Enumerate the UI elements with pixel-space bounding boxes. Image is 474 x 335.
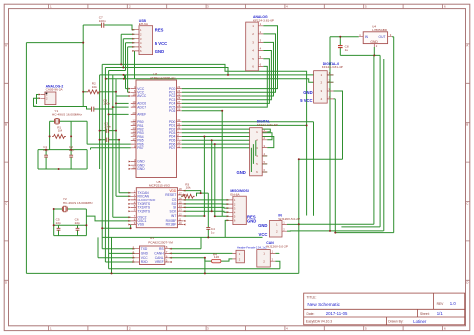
svg-text:100n: 100n bbox=[104, 124, 111, 128]
resistor R3 bbox=[182, 182, 195, 198]
svg-text:21: 21 bbox=[133, 165, 136, 169]
junction (83.2,91.8) bbox=[82, 91, 84, 93]
svg-text:10k: 10k bbox=[92, 85, 97, 89]
wire CAN pin1 bbox=[275, 252, 279, 254]
svg-text:TXD: TXD bbox=[141, 247, 148, 251]
wire Y2 bottom rail bbox=[54, 235, 87, 237]
svg-text:Drawn By:: Drawn By: bbox=[388, 320, 403, 324]
svg-text:14: 14 bbox=[179, 204, 182, 208]
wire C7 to USB pin1 bbox=[104, 25, 134, 30]
svg-text:10k: 10k bbox=[186, 186, 191, 190]
wire ADC6 tap bbox=[116, 102, 129, 104]
wire mystery row y226.9 bbox=[341, 226, 380, 228]
svg-text:Sheet:: Sheet: bbox=[420, 312, 430, 316]
svg-text:22: 22 bbox=[133, 104, 136, 108]
wire PD4 to DIGITAL pin3 bbox=[182, 137, 274, 148]
svg-text:25: 25 bbox=[177, 93, 180, 97]
junction (86.4,225.2) bbox=[85, 224, 87, 226]
svg-text:29: 29 bbox=[177, 107, 180, 111]
wire PCA RS bbox=[170, 237, 202, 248]
wire GND rail y55.4 bbox=[340, 54, 380, 56]
IC U3 ATMEGA328P-AU bbox=[129, 72, 182, 177]
svg-text:KF124-3.81-4P: KF124-3.81-4P bbox=[322, 65, 343, 69]
svg-text:A: A bbox=[5, 44, 7, 48]
connector MISO/MOSI EH-6A bbox=[227, 189, 249, 224]
wire R2 left bbox=[83, 91, 86, 93]
wire big bottom rail y273.4 bbox=[26, 272, 298, 274]
wire MCP VSS to rail bbox=[102, 225, 130, 229]
wire MCP INT up bbox=[183, 137, 204, 217]
wire U4 IN net down x330 bbox=[329, 37, 331, 231]
wire DIGITAL-0 pin4 5V down bbox=[334, 99, 336, 233]
wire Y2 to OSC1 bbox=[86, 216, 130, 221]
svg-text:100n: 100n bbox=[99, 19, 106, 23]
svg-text:13: 13 bbox=[179, 208, 182, 212]
svg-text:16: 16 bbox=[179, 196, 182, 200]
svg-text:23: 23 bbox=[177, 85, 180, 89]
wire PB6 from crystal bbox=[87, 143, 131, 145]
wire bus x102.2 bbox=[102, 64, 135, 248]
junction (228,74.9) bbox=[227, 74, 229, 76]
IC U1 PCA82C250T-YM bbox=[133, 236, 174, 264]
svg-text:PCA82C250T-YM: PCA82C250T-YM bbox=[148, 240, 173, 244]
capacitor C9 bbox=[92, 99, 111, 112]
svg-text:PD7: PD7 bbox=[169, 146, 176, 150]
svg-text:5 VCC: 5 VCC bbox=[155, 41, 167, 46]
junction (116,130.6) bbox=[115, 130, 117, 132]
svg-text:VCC: VCC bbox=[259, 232, 268, 237]
junction (123.9,78.7) bbox=[123, 78, 125, 80]
svg-text:EH-6A: EH-6A bbox=[230, 192, 240, 196]
junction (112.8,107.1) bbox=[112, 106, 114, 108]
svg-text:100n: 100n bbox=[103, 102, 110, 106]
svg-text:16: 16 bbox=[133, 133, 136, 137]
wire C9 right bbox=[94, 108, 113, 110]
svg-text:22p: 22p bbox=[75, 221, 80, 225]
svg-text:17: 17 bbox=[179, 191, 182, 195]
resistor R2 bbox=[87, 82, 101, 94]
svg-text:10: 10 bbox=[177, 141, 180, 145]
wire AREF tap bbox=[109, 113, 129, 115]
svg-text:SCK: SCK bbox=[170, 209, 178, 213]
wire big left loop vertical x26.4 bbox=[25, 43, 27, 274]
wire R3 right up bbox=[197, 193, 209, 227]
svg-text:27: 27 bbox=[177, 100, 180, 104]
wire MCP SO to MISO pin2 bbox=[183, 203, 229, 205]
resistor R4 bbox=[212, 252, 221, 262]
wire C3 row bbox=[100, 130, 116, 132]
IC U5 MCP2515-I/SO bbox=[128, 180, 185, 228]
wire v x99.6 bbox=[99, 75, 101, 169]
svg-text:15: 15 bbox=[179, 200, 182, 204]
wire right loop vertical x298.8 bbox=[298, 159, 300, 273]
svg-text:10: 10 bbox=[179, 221, 182, 225]
svg-text:Date:: Date: bbox=[307, 312, 315, 316]
capacitor C4 bbox=[206, 227, 215, 234]
svg-text:1/1: 1/1 bbox=[437, 311, 444, 316]
wire ADC7 tap bbox=[113, 106, 129, 108]
wire C8 stems bbox=[339, 37, 341, 56]
svg-text:GND: GND bbox=[155, 49, 164, 54]
capacitor C3 bbox=[104, 121, 111, 132]
svg-text:18: 18 bbox=[179, 187, 182, 191]
svg-text:Lotiner: Lotiner bbox=[413, 319, 427, 324]
junction (374.3,55.4) bbox=[373, 54, 375, 56]
svg-text:18: 18 bbox=[133, 93, 136, 97]
junction (211.7,211.2) bbox=[211, 210, 213, 212]
junction (214.8,216.3) bbox=[214, 215, 216, 217]
svg-text:RS: RS bbox=[159, 247, 164, 251]
svg-text:TX2RTS: TX2RTS bbox=[138, 209, 151, 213]
junction (204.4,216) bbox=[203, 215, 205, 217]
crystal Y2 bbox=[62, 197, 93, 212]
wire CANL down bbox=[204, 258, 206, 274]
capacitor C5 bbox=[56, 218, 61, 231]
wire PC2 to ANALOG pin3 bbox=[182, 42, 274, 96]
capacitor C6 bbox=[75, 218, 80, 231]
junction (102.2,228.3) bbox=[101, 227, 103, 229]
wire C2 stems bbox=[70, 150, 72, 169]
wire bus x112.8 bbox=[113, 75, 131, 217]
wire Y2 right bbox=[68, 209, 87, 236]
junction (71.1,149.6) bbox=[70, 149, 72, 151]
wire MISO pin6 GND bbox=[225, 220, 229, 237]
wire USB pin6 down bbox=[134, 51, 136, 79]
wire U4 OUT down x393.7 bbox=[392, 37, 394, 233]
wire GND row y78.7 to DIGITAL-0 pin2 bbox=[106, 79, 334, 83]
svg-text:26: 26 bbox=[177, 96, 180, 100]
wire PCA CANH to header bbox=[170, 252, 233, 254]
svg-text:GND: GND bbox=[237, 170, 246, 175]
wire USB pin4 down bbox=[109, 43, 135, 71]
wire IN pin1 GND row y224.2 bbox=[287, 223, 374, 225]
junction (298.8,224.3) bbox=[298, 223, 300, 225]
svg-text:RXD: RXD bbox=[141, 260, 149, 264]
svg-text:RES: RES bbox=[155, 27, 164, 32]
svg-text:1u: 1u bbox=[345, 48, 349, 52]
capacitor C1 bbox=[43, 145, 48, 157]
wire PCA VCC left bbox=[98, 237, 135, 257]
wire bundle x380.1 bbox=[379, 55, 381, 227]
svg-text:1.0: 1.0 bbox=[450, 301, 457, 306]
crystal Y1 bbox=[52, 109, 82, 124]
junction (204.9,273.4) bbox=[204, 272, 206, 274]
wire bus x116 bbox=[116, 79, 131, 196]
wire C1C2 top rail y149.6 bbox=[38, 149, 87, 151]
wire PC3 to ANALOG pin4 bbox=[182, 51, 272, 100]
wire R3 left to RESET bbox=[181, 195, 183, 196]
svg-text:AREF: AREF bbox=[137, 113, 146, 117]
wire PC5 to ANALOG pin6 bbox=[182, 66, 268, 107]
svg-text:A: A bbox=[466, 44, 468, 48]
junction (105.8,78.7) bbox=[105, 78, 107, 80]
wire bus x105.4 bbox=[105, 68, 134, 263]
svg-text:CANH: CANH bbox=[154, 252, 164, 256]
svg-text:Header-Female-2.54_1x2: Header-Female-2.54_1x2 bbox=[237, 246, 267, 250]
wire PC0 to ANALOG pin1 bbox=[182, 26, 278, 89]
svg-text:VSS: VSS bbox=[138, 223, 145, 227]
wire Y1 left bbox=[50, 121, 55, 149]
junction (46.1,149.6) bbox=[45, 149, 47, 151]
svg-text:KF124-3.81-6P: KF124-3.81-6P bbox=[257, 123, 278, 127]
svg-text:INT: INT bbox=[171, 214, 176, 218]
wire C5 stems bbox=[58, 225, 60, 235]
wire MCP SI to MISO pin3 bbox=[183, 206, 229, 209]
wire C9 left bbox=[34, 95, 92, 110]
wire row y64.4 to v306.6 bbox=[102, 64, 306, 215]
svg-text:CA05-96-2A: CA05-96-2A bbox=[46, 88, 64, 92]
junction (222.2,110.8) bbox=[221, 110, 223, 112]
wire rail y268.7 bbox=[109, 268, 280, 270]
svg-text:GND: GND bbox=[247, 219, 256, 224]
junction (116,103.4) bbox=[115, 102, 117, 104]
wire U4 IN left bbox=[330, 36, 359, 38]
junction (123.5,74.9) bbox=[123, 74, 125, 76]
svg-text:GND: GND bbox=[370, 40, 378, 44]
svg-text:B: B bbox=[5, 123, 7, 127]
junction (116,91.8) bbox=[115, 91, 117, 93]
wire Y2 left bbox=[54, 209, 63, 236]
svg-text:HC-49US 16.000MHz: HC-49US 16.000MHz bbox=[63, 201, 93, 205]
svg-text:GND: GND bbox=[258, 223, 267, 228]
junction (53.7,209) bbox=[53, 208, 55, 210]
wire bus x108.6 bbox=[108, 71, 110, 269]
connector IN WJ126V-5.0-2P bbox=[269, 214, 300, 237]
svg-text:OUT: OUT bbox=[379, 35, 386, 39]
junction (306.6,125.4) bbox=[306, 124, 308, 126]
svg-text:19: 19 bbox=[133, 100, 136, 104]
junction (119.1,139.8) bbox=[118, 139, 120, 141]
wire link 5V-GND rows bbox=[124, 75, 126, 79]
wire PB7 tap bbox=[91, 148, 131, 150]
junction (83.2,42.6) bbox=[82, 42, 84, 44]
wire C1 stems bbox=[45, 150, 47, 169]
connector ANALOG-2 CA05-96-2A bbox=[39, 84, 64, 104]
junction (99.6,139.8) bbox=[99, 139, 101, 141]
svg-text:VREF: VREF bbox=[155, 260, 164, 264]
wire PCA CANL to R4 bbox=[170, 258, 212, 261]
wire PD2 to DIGITAL pin1 bbox=[182, 129, 271, 132]
junction (200.7,193.1) bbox=[200, 192, 202, 194]
wire U4 GND stub bbox=[373, 47, 375, 55]
svg-text:11: 11 bbox=[177, 144, 180, 148]
svg-text:17: 17 bbox=[133, 137, 136, 141]
wire MCP SCK to MISO pin4 bbox=[183, 211, 229, 212]
svg-text:ATMEGA328P-AU: ATMEGA328P-AU bbox=[150, 76, 175, 80]
junction (58.6,169) bbox=[58, 168, 60, 170]
wire PC6 RES net bbox=[182, 111, 229, 217]
svg-text:120: 120 bbox=[214, 255, 219, 259]
svg-text:L7805ABD: L7805ABD bbox=[372, 28, 388, 32]
svg-text:15: 15 bbox=[133, 130, 136, 134]
svg-text:1M: 1M bbox=[58, 129, 63, 133]
svg-text:New Schematic: New Schematic bbox=[307, 302, 340, 307]
svg-text:20: 20 bbox=[133, 111, 136, 115]
svg-text:GND: GND bbox=[137, 167, 145, 171]
wire bottom rail y169 bbox=[38, 150, 87, 169]
junction (204.9,257.8) bbox=[204, 257, 206, 259]
wire GND bundle x373.9 bbox=[373, 55, 375, 224]
wire top GND horizontal y42.6 bbox=[26, 42, 83, 44]
wire PC1 to ANALOG pin2 bbox=[182, 34, 276, 92]
capacitor C8 bbox=[338, 44, 349, 51]
svg-text:TITLE:: TITLE: bbox=[307, 295, 317, 299]
svg-text:11: 11 bbox=[179, 217, 182, 221]
wire bus x119.1 bbox=[119, 140, 131, 193]
connector DIGITAL KF124-3.81-6P bbox=[250, 120, 278, 176]
junction (204.4,136.5) bbox=[203, 136, 205, 138]
svg-text:RX1BF: RX1BF bbox=[166, 223, 177, 227]
capacitor C2 bbox=[69, 145, 74, 157]
svg-text:REV: REV bbox=[437, 302, 445, 306]
resistor R1 bbox=[52, 125, 66, 138]
junction (208.3,237.4) bbox=[207, 236, 209, 238]
wire DIGITAL-0 pin3 to GND loop bbox=[299, 91, 343, 159]
wire PD5 to DIGITAL pin4 bbox=[182, 140, 267, 156]
junction (335.3,232.6) bbox=[334, 232, 336, 234]
svg-text:22p: 22p bbox=[56, 221, 61, 225]
svg-text:14: 14 bbox=[133, 126, 136, 130]
svg-text:28: 28 bbox=[177, 104, 180, 108]
wire PD0 right bbox=[182, 122, 314, 216]
wire PD5 to SCK vertical bbox=[211, 140, 213, 211]
wire Y1 right bbox=[60, 121, 72, 149]
wire vertical left bus x83 bbox=[82, 25, 84, 107]
wire Y1 to PB6 bbox=[71, 121, 87, 144]
svg-text:12: 12 bbox=[179, 213, 182, 217]
svg-text:MCP2515-I/SO: MCP2515-I/SO bbox=[149, 184, 171, 188]
svg-text:AVCC: AVCC bbox=[137, 94, 147, 98]
wire PD3 to DIGITAL pin2 bbox=[182, 133, 272, 140]
wire C7 left to loop bbox=[83, 24, 101, 26]
wire R2 right to bus bbox=[100, 91, 116, 93]
wire R4 to header pin2 bbox=[221, 259, 233, 261]
svg-text:30: 30 bbox=[177, 118, 180, 122]
junction (49.6,136.4) bbox=[49, 135, 51, 137]
wire MCP CS to MISO pin1 bbox=[183, 199, 229, 201]
wire PCA GND left bbox=[109, 252, 135, 254]
wire USB pin2 down bbox=[121, 34, 134, 64]
wire PC4 to ANALOG pin5 bbox=[182, 59, 270, 104]
wire 5V row y74.1 to DIGITAL-0 pin1 bbox=[100, 74, 334, 76]
svg-text:32: 32 bbox=[177, 126, 180, 130]
svg-text:WJ126V-5.0-2P: WJ126V-5.0-2P bbox=[266, 244, 288, 248]
wire PD6 to DIGITAL pin5 bbox=[182, 144, 267, 164]
wire IN pin2 VCC row y230.9 bbox=[287, 230, 384, 232]
junction (123.3,67.5) bbox=[122, 67, 124, 69]
wire v x111.5 bbox=[111, 237, 113, 273]
wire row y67.5 step bbox=[105, 68, 228, 75]
wire mid rail y237.4 bbox=[102, 236, 262, 238]
junction (108.6,114.4) bbox=[108, 113, 110, 115]
junction (340.3,36.7) bbox=[339, 36, 341, 38]
svg-text:RESET: RESET bbox=[165, 193, 176, 197]
wire bundle x383.8 bbox=[383, 59, 385, 231]
capacitor C7 bbox=[99, 16, 106, 28]
wire C6 stems bbox=[77, 225, 79, 235]
svg-text:5 VCC: 5 VCC bbox=[300, 98, 312, 103]
wire PD1 right bbox=[182, 124, 307, 126]
junction (71.1,136.4) bbox=[70, 135, 72, 137]
svg-text:HC-49US 16.000MHz: HC-49US 16.000MHz bbox=[52, 113, 82, 117]
svg-text:2017-11-05: 2017-11-05 bbox=[326, 311, 348, 316]
connector P1 Header-Female-2.54_1x2 bbox=[232, 246, 267, 263]
wire VCC taps to U3 bbox=[116, 75, 129, 96]
wire C10 row bbox=[100, 139, 120, 141]
svg-text:PB7: PB7 bbox=[137, 146, 143, 150]
wire CAN pin2 loop bbox=[275, 261, 280, 269]
junction (214.8,144.1) bbox=[214, 143, 216, 145]
connector ANALOG KF124-3.81-6P bbox=[246, 15, 274, 71]
junction (121.2,64.4) bbox=[120, 63, 122, 65]
junction (53.7,225.2) bbox=[53, 224, 55, 226]
capacitor C10 bbox=[106, 138, 108, 142]
svg-text:GND: GND bbox=[141, 252, 149, 256]
svg-text:EasyEDA V4.10.3: EasyEDA V4.10.3 bbox=[306, 320, 332, 324]
wire MCP VDD jog bbox=[183, 191, 201, 194]
connector USB EH-6A bbox=[132, 19, 152, 55]
svg-text:13: 13 bbox=[133, 122, 136, 126]
connector CAN WJ126V-5.0-2P bbox=[257, 241, 288, 267]
svg-text:12: 12 bbox=[133, 118, 136, 122]
svg-text:ADC7: ADC7 bbox=[137, 105, 146, 109]
wire USB pin3 down bbox=[123, 39, 134, 68]
wire Y2 caps top rail bbox=[54, 224, 87, 226]
title block bbox=[304, 293, 465, 325]
wire C4 bottom bbox=[207, 230, 209, 238]
wire PD6 to RES vertical bbox=[214, 144, 216, 216]
wire 5V row y232.6 bbox=[335, 232, 393, 234]
svg-text:GND: GND bbox=[303, 90, 312, 95]
svg-text:PC6: PC6 bbox=[169, 109, 176, 113]
junction (111.5,273.4) bbox=[111, 272, 113, 274]
wire USB pin5 down bbox=[128, 47, 135, 75]
junction (211.7,140.2) bbox=[211, 139, 213, 141]
connector DIGITAL-0 KF124-3.81-4P bbox=[314, 62, 343, 103]
svg-text:24: 24 bbox=[177, 89, 180, 93]
svg-text:31: 31 bbox=[177, 122, 180, 126]
IC U4 L7805ABD bbox=[359, 25, 392, 48]
svg-text:B: B bbox=[466, 123, 468, 127]
wire DIGITAL inside verticals redraw bbox=[251, 140, 255, 172]
svg-text:1u: 1u bbox=[211, 230, 215, 234]
junction (298.8,159.2) bbox=[298, 158, 300, 160]
junction (99.6,130.6) bbox=[99, 130, 101, 132]
junction (330,230.9) bbox=[329, 230, 331, 232]
wire PD7 to DIGITAL pin6 bbox=[182, 148, 267, 172]
junction (130.6,228.3) bbox=[130, 227, 132, 229]
